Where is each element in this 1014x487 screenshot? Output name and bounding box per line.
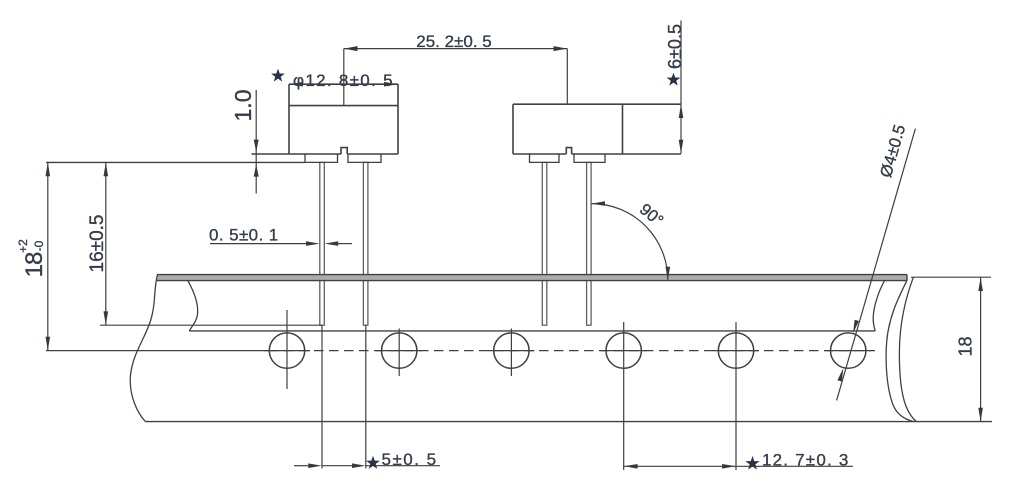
svg-text:1.0: 1.0 <box>230 90 256 122</box>
svg-text:-0: -0 <box>32 240 46 251</box>
svg-text:+2: +2 <box>16 239 30 253</box>
svg-text:5±0. 5: 5±0. 5 <box>382 450 438 469</box>
svg-text:25. 2±0. 5: 25. 2±0. 5 <box>416 32 492 51</box>
svg-text:12. 7±0. 3: 12. 7±0. 3 <box>762 451 850 470</box>
svg-text:16±0.5: 16±0.5 <box>87 215 108 273</box>
svg-text:φ12. 8±0. 5: φ12. 8±0. 5 <box>293 71 394 90</box>
svg-text:18: 18 <box>956 336 976 356</box>
svg-text:18: 18 <box>21 252 48 277</box>
svg-text:0. 5±0. 1: 0. 5±0. 1 <box>209 225 279 244</box>
svg-text:6±0.5: 6±0.5 <box>665 24 685 69</box>
